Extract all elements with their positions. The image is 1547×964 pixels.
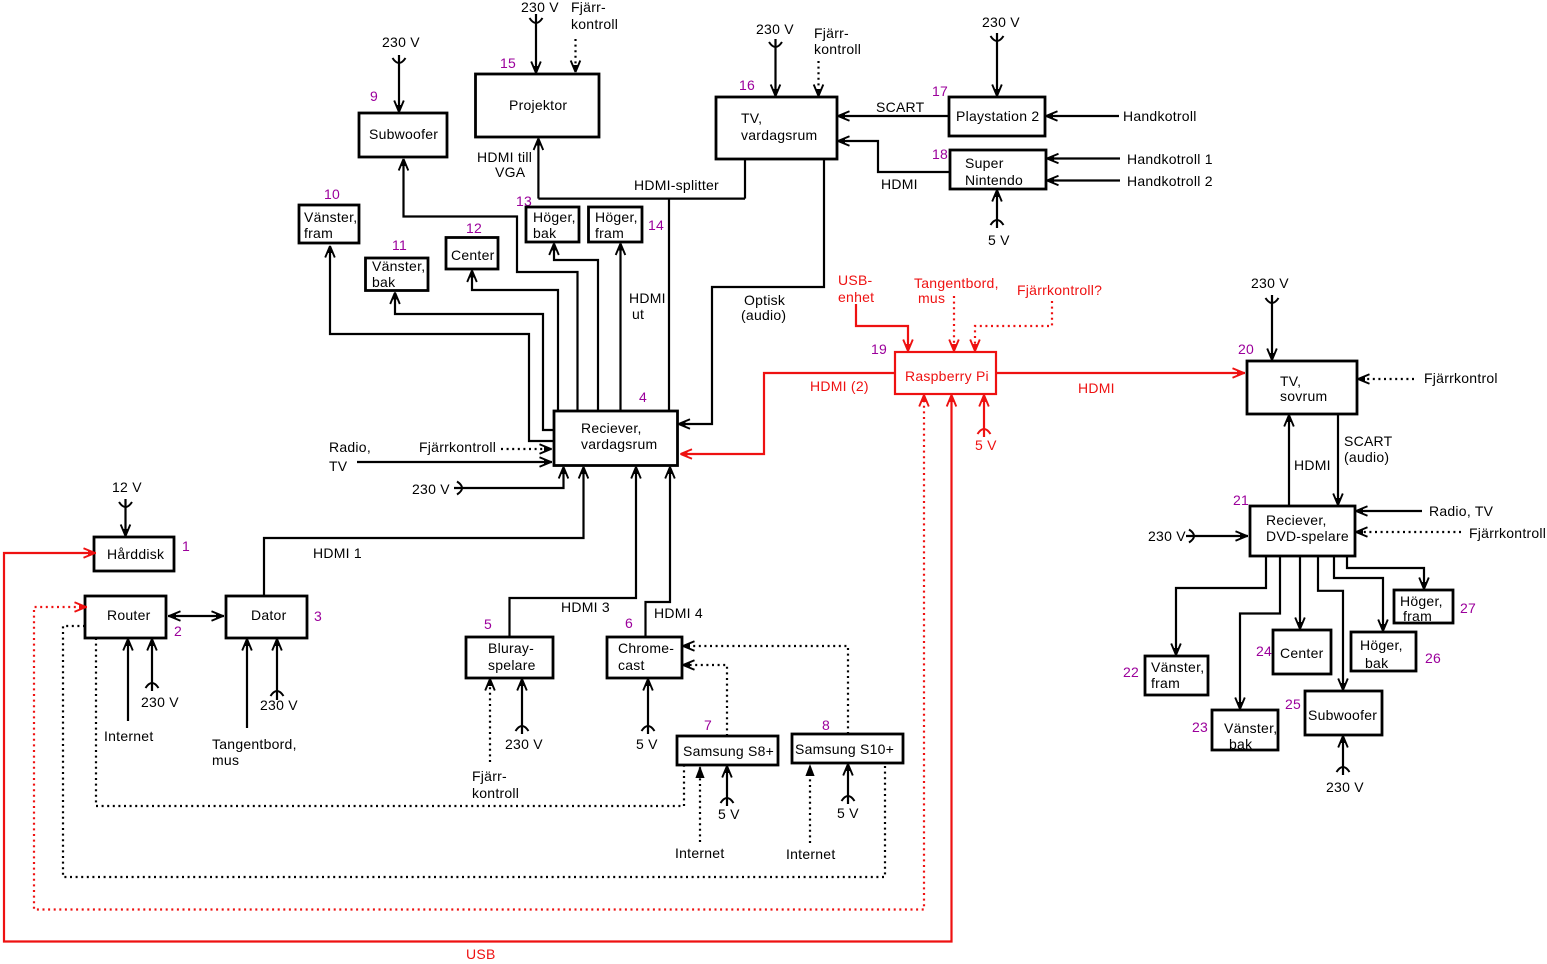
node label 5: [484, 616, 492, 632]
svg-text:HDMI (2): HDMI (2): [810, 378, 869, 394]
svg-text:Reciever,: Reciever,: [581, 420, 642, 436]
svg-text:25: 25: [1285, 696, 1301, 712]
svg-text:HDMI-splitter: HDMI-splitter: [634, 177, 719, 193]
wire USB harddisk to raspberry pi (red): [4, 395, 956, 963]
subwoofer 25 box: [1305, 691, 1382, 735]
svg-text:(audio): (audio): [741, 307, 786, 323]
svg-text:Internet: Internet: [104, 728, 153, 744]
svg-text:26: 26: [1425, 650, 1441, 666]
svg-text:19: 19: [871, 341, 887, 357]
svg-text:Dator: Dator: [251, 607, 287, 623]
svg-text:kontroll: kontroll: [571, 16, 618, 32]
svg-text:bak: bak: [1229, 736, 1253, 752]
center 24 box: [1273, 630, 1331, 674]
wire wifi router to samsung s10 (dotted): [63, 626, 885, 877]
svg-text:230 V: 230 V: [382, 34, 420, 50]
node label 18: [932, 146, 948, 162]
wire receiver to center 12: [467, 270, 558, 411]
node label 14: [648, 217, 664, 233]
hoger bak 26 box: [1351, 632, 1416, 671]
wire receiver dvd to vanster bak 23: [1235, 556, 1280, 710]
svg-text:mus: mus: [918, 290, 945, 306]
svg-text:HDMI 3: HDMI 3: [561, 599, 610, 615]
svg-text:230 V: 230 V: [521, 0, 559, 15]
svg-text:5: 5: [484, 616, 492, 632]
svg-text:HDMI: HDMI: [1294, 457, 1331, 473]
hoger fram 14 box: [589, 207, 643, 242]
node label 27: [1460, 600, 1476, 616]
node label 15: [500, 55, 516, 71]
svg-text:TV,: TV,: [1280, 373, 1301, 389]
wire HDMI 2 raspberry pi to receiver (red): [680, 373, 895, 459]
wire receiver dvd to hoger fram 27: [1347, 556, 1429, 590]
svg-text:22: 22: [1123, 664, 1139, 680]
svg-text:23: 23: [1192, 719, 1208, 735]
svg-text:230 V: 230 V: [260, 697, 298, 713]
svg-text:24: 24: [1256, 643, 1272, 659]
wire receiver dvd to center 24: [1295, 556, 1305, 630]
svg-text:Center: Center: [1280, 645, 1324, 661]
wire receiver to subwoofer 9: [399, 159, 578, 412]
wire fjarrkontroll to projektor (dotted): [571, 0, 618, 73]
svg-text:230 V: 230 V: [412, 481, 450, 497]
svg-text:10: 10: [324, 186, 340, 202]
wire receiver dvd to subwoofer 25: [1318, 556, 1348, 691]
wire SCART audio TV sovrum to receiver dvd: [1333, 414, 1392, 506]
svg-text:230 V: 230 V: [982, 14, 1020, 30]
svg-text:bak: bak: [372, 274, 396, 290]
svg-text:Hårddisk: Hårddisk: [107, 546, 165, 562]
svg-text:kontroll: kontroll: [472, 785, 519, 801]
wire 230V to projektor: [521, 0, 559, 74]
svg-text:Chrome-: Chrome-: [618, 640, 674, 656]
wire SCART playstation to TV: [838, 99, 950, 121]
wire handkotroll to playstation: [1046, 108, 1197, 124]
svg-text:6: 6: [625, 615, 633, 631]
wire USB-enhet to raspberry pi (red): [838, 272, 913, 352]
svg-text:Tangentbord,: Tangentbord,: [212, 736, 297, 752]
wire 5V to nintendo: [988, 190, 1010, 249]
svg-text:15: 15: [500, 55, 516, 71]
vanster bak 23 box: [1212, 710, 1278, 752]
svg-text:HDMI: HDMI: [1078, 380, 1115, 396]
svg-text:fram: fram: [304, 225, 333, 241]
wire s8 to chromecast (dotted): [683, 660, 728, 736]
svg-text:bak: bak: [1365, 655, 1389, 671]
node label 16: [739, 77, 755, 93]
svg-text:vardagsrum: vardagsrum: [741, 127, 817, 143]
svg-text:Nintendo: Nintendo: [965, 172, 1023, 188]
playstation 2 17 box: [949, 97, 1045, 136]
svg-text:enhet: enhet: [838, 289, 874, 305]
svg-text:Handkotroll: Handkotroll: [1123, 108, 1197, 124]
svg-text:7: 7: [704, 717, 712, 733]
wire 230V to TV vardagsrum: [756, 21, 794, 97]
wire internet to router: [104, 639, 153, 745]
wire 230V to receiver: [412, 467, 568, 498]
wire 230V to receiver dvd: [1148, 528, 1248, 544]
wire 230V to subwoofer 9: [382, 34, 420, 113]
svg-text:230 V: 230 V: [505, 736, 543, 752]
svg-text:Radio, TV: Radio, TV: [1429, 503, 1494, 519]
svg-text:Höger,: Höger,: [595, 209, 638, 225]
wire receiver to vanster fram 10: [325, 246, 554, 442]
svg-text:sovrum: sovrum: [1280, 388, 1327, 404]
wire 5V to raspberry pi (red): [975, 395, 997, 454]
svg-text:DVD-spelare: DVD-spelare: [1266, 528, 1349, 544]
svg-text:Handkotroll 2: Handkotroll 2: [1127, 173, 1213, 189]
wire HDMI-splitter bus: [538, 159, 745, 199]
svg-text:Vänster,: Vänster,: [1151, 659, 1204, 675]
vanster bak 11 box: [366, 258, 429, 291]
svg-text:cast: cast: [618, 657, 645, 673]
hoger fram 27 box: [1394, 590, 1453, 624]
svg-text:Fjärrkontroll: Fjärrkontroll: [1469, 525, 1546, 541]
dator 3 box: [226, 596, 307, 638]
projektor 15 box: [476, 74, 600, 137]
node label 12: [466, 220, 482, 236]
wire receiver to vanster bak 11: [390, 292, 554, 430]
router 2 box: [85, 596, 166, 638]
node label 20: [1238, 341, 1254, 357]
wire fjarrkontroll to bluray (dotted): [472, 679, 519, 802]
svg-text:fram: fram: [1403, 608, 1432, 624]
svg-text:Höger,: Höger,: [533, 209, 576, 225]
svg-text:HDMI: HDMI: [881, 176, 918, 192]
hoger bak 13 box: [526, 207, 579, 242]
svg-text:Vänster,: Vänster,: [1224, 720, 1277, 736]
svg-text:5 V: 5 V: [988, 232, 1010, 248]
vanster fram 10 box: [299, 205, 359, 243]
wire 5V to chromecast: [636, 679, 658, 753]
super nintendo 18 box: [950, 150, 1046, 189]
svg-text:230 V: 230 V: [1148, 528, 1186, 544]
receiver dvd 21 box: [1250, 506, 1355, 556]
node label 17: [932, 83, 948, 99]
svg-text:230 V: 230 V: [1251, 275, 1289, 291]
svg-text:Höger,: Höger,: [1400, 593, 1443, 609]
svg-text:11: 11: [392, 237, 407, 253]
wire tangentbord mus to dator: [212, 639, 297, 769]
wire router-dator link: [168, 611, 224, 621]
svg-text:16: 16: [739, 77, 755, 93]
wire fjarrkontroll to receiver dvd (dotted): [1356, 525, 1547, 541]
wire handkotroll 2 to nintendo: [1047, 173, 1213, 189]
svg-text:USB: USB: [466, 946, 496, 962]
svg-text:Handkotroll 1: Handkotroll 1: [1127, 151, 1213, 167]
center 12 box: [446, 238, 498, 270]
chromecast 6 box: [607, 637, 682, 678]
svg-text:Internet: Internet: [786, 846, 835, 862]
wire HDMI receiver dvd to TV sovrum: [1284, 415, 1331, 507]
svg-text:Tangentbord,: Tangentbord,: [914, 275, 999, 291]
svg-text:HDMI: HDMI: [629, 290, 666, 306]
svg-text:5 V: 5 V: [975, 437, 997, 453]
node label 8: [822, 717, 830, 733]
svg-text:Fjärr-: Fjärr-: [571, 0, 606, 15]
samsung s10 8 box: [792, 734, 903, 763]
wire receiver to hoger bak 13: [549, 243, 598, 411]
wire fjarrkontroll to receiver (dotted): [419, 439, 552, 455]
svg-text:vardagsrum: vardagsrum: [581, 436, 657, 452]
svg-text:mus: mus: [212, 752, 239, 768]
svg-text:3: 3: [314, 608, 322, 624]
svg-text:fram: fram: [595, 225, 624, 241]
samsung s8 7 box: [677, 736, 778, 765]
wire radio tv to receiver: [329, 439, 552, 474]
svg-text:5 V: 5 V: [837, 805, 859, 821]
wire receiver dvd to hoger bak 26: [1334, 556, 1388, 632]
svg-text:Höger,: Höger,: [1360, 637, 1403, 653]
node label 25: [1285, 696, 1301, 712]
node label 22: [1123, 664, 1139, 680]
svg-text:Super: Super: [965, 155, 1004, 171]
svg-text:2: 2: [174, 623, 182, 639]
svg-text:Raspberry Pi: Raspberry Pi: [905, 368, 989, 384]
svg-text:(audio): (audio): [1344, 449, 1389, 465]
svg-text:27: 27: [1460, 600, 1476, 616]
node label 2: [174, 623, 182, 639]
wire 230V to playstation: [982, 14, 1020, 97]
node label 23: [1192, 719, 1208, 735]
node label 13: [516, 193, 532, 209]
svg-text:VGA: VGA: [495, 164, 526, 180]
node label 11: [392, 237, 407, 253]
subwoofer 9 box: [359, 113, 447, 157]
svg-text:12 V: 12 V: [112, 479, 142, 495]
svg-text:Vänster,: Vänster,: [372, 258, 425, 274]
wire HDMI nintendo to TV: [838, 136, 951, 192]
node label 21: [1233, 492, 1249, 508]
svg-text:Vänster,: Vänster,: [304, 209, 357, 225]
wire fjarrkontrol to TV sovrum (dotted): [1358, 370, 1498, 386]
wire HDMI 1 dator to receiver: [264, 467, 588, 597]
svg-text:17: 17: [932, 83, 948, 99]
svg-text:Bluray-: Bluray-: [488, 640, 534, 656]
wire HDMI ut (receiver 4 to splitter): [629, 199, 669, 411]
svg-text:kontroll: kontroll: [814, 41, 861, 57]
svg-text:fram: fram: [1151, 675, 1180, 691]
svg-text:Playstation 2: Playstation 2: [956, 108, 1039, 124]
wire radio tv to receiver dvd: [1356, 503, 1494, 519]
svg-text:230 V: 230 V: [756, 21, 794, 37]
node label 6: [625, 615, 633, 631]
svg-text:Fjärrkontroll: Fjärrkontroll: [419, 439, 496, 455]
svg-text:TV,: TV,: [741, 110, 762, 126]
svg-text:1: 1: [182, 538, 190, 554]
harddisk 1 box: [94, 537, 174, 571]
wire fjarrkontroll? to raspberry pi (red dotted): [970, 282, 1102, 352]
svg-text:Samsung S10+: Samsung S10+: [795, 741, 894, 757]
wire fjarrkontroll to TV vardagsrum (dotted): [814, 25, 861, 97]
svg-text:USB-: USB-: [838, 272, 873, 288]
svg-text:spelare: spelare: [488, 657, 536, 673]
svg-text:Fjärr-: Fjärr-: [814, 25, 849, 41]
svg-text:HDMI 4: HDMI 4: [654, 605, 703, 621]
node label 4: [639, 389, 647, 405]
svg-text:4: 4: [639, 389, 647, 405]
wire 5V to samsung s10: [837, 764, 859, 822]
svg-text:12: 12: [466, 220, 482, 236]
svg-text:Fjärr-: Fjärr-: [472, 768, 507, 784]
vanster fram 22 box: [1145, 656, 1208, 695]
wire handkotroll 1 to nintendo: [1047, 151, 1213, 167]
svg-text:18: 18: [932, 146, 948, 162]
svg-text:Samsung S8+: Samsung S8+: [683, 743, 774, 759]
svg-text:SCART: SCART: [1344, 433, 1393, 449]
svg-text:Subwoofer: Subwoofer: [369, 126, 438, 142]
wire 12V to harddisk: [112, 479, 142, 537]
wire HDMI 4 chromecast to receiver: [646, 467, 703, 638]
svg-text:Internet: Internet: [675, 845, 724, 861]
svg-text:Radio,: Radio,: [329, 439, 371, 455]
wire 230V to bluray: [505, 679, 543, 753]
wire wifi router to samsung s8 (dotted): [96, 638, 684, 806]
svg-text:ut: ut: [632, 306, 644, 322]
svg-text:Router: Router: [107, 607, 151, 623]
svg-text:230 V: 230 V: [1326, 779, 1364, 795]
svg-text:5 V: 5 V: [636, 736, 658, 752]
svg-text:9: 9: [370, 88, 378, 104]
svg-text:20: 20: [1238, 341, 1254, 357]
svg-text:Reciever,: Reciever,: [1266, 512, 1327, 528]
svg-text:SCART: SCART: [876, 99, 925, 115]
wire USB router to raspberry pi (red dotted): [34, 395, 929, 910]
node label 10: [324, 186, 340, 202]
svg-text:Subwoofer: Subwoofer: [1308, 707, 1377, 723]
svg-text:HDMI 1: HDMI 1: [313, 545, 362, 561]
svg-text:Fjärrkontrol: Fjärrkontrol: [1424, 370, 1498, 386]
svg-text:8: 8: [822, 717, 830, 733]
svg-text:Projektor: Projektor: [509, 97, 567, 113]
node label 1: [182, 538, 190, 554]
wire HDMI till VGA (splitter to projektor): [477, 138, 543, 199]
svg-text:230 V: 230 V: [141, 694, 179, 710]
wire s10 to chromecast (dotted): [683, 641, 849, 734]
wire 5V to samsung s8: [718, 766, 740, 823]
wire HDMI raspberry pi to TV sovrum (red): [996, 368, 1245, 396]
wire internet to samsung s10 (dotted): [786, 764, 835, 862]
node label 7: [704, 717, 712, 733]
node label 24: [1256, 643, 1272, 659]
wire tangentbord mus to raspberry pi (red dotted): [914, 275, 999, 352]
wire internet to samsung s8 (dotted): [675, 766, 724, 861]
svg-text:HDMI till: HDMI till: [477, 149, 532, 165]
svg-text:Optisk: Optisk: [744, 292, 786, 308]
TV sovrum 20 box: [1247, 361, 1357, 414]
wire 230V to subwoofer 25: [1326, 736, 1364, 796]
wire 230V to dator: [260, 639, 298, 714]
node label 26: [1425, 650, 1441, 666]
node label 9: [370, 88, 378, 104]
svg-text:21: 21: [1233, 492, 1249, 508]
wire 230V to TV sovrum: [1251, 275, 1289, 361]
receiver vardagsrum 4 box: [554, 411, 678, 466]
wire receiver dvd to vanster fram 22: [1171, 556, 1266, 656]
wire HDMI 3 bluray to receiver: [510, 467, 641, 638]
wire receiver to hoger fram 14: [616, 243, 626, 411]
node label 3: [314, 608, 322, 624]
svg-text:TV: TV: [329, 458, 348, 474]
raspberry pi 19 box: [895, 352, 996, 394]
bluray 5 box: [466, 637, 553, 678]
svg-text:5 V: 5 V: [718, 806, 740, 822]
svg-text:Center: Center: [451, 247, 495, 263]
svg-text:Fjärrkontroll?: Fjärrkontroll?: [1017, 282, 1102, 298]
wire optisk audio TV to receiver: [678, 159, 824, 429]
svg-text:14: 14: [648, 217, 664, 233]
wire 230V to router: [141, 639, 179, 711]
svg-text:bak: bak: [533, 225, 557, 241]
node label 19: [871, 341, 887, 357]
TV vardagsrum 16 box: [716, 97, 837, 159]
